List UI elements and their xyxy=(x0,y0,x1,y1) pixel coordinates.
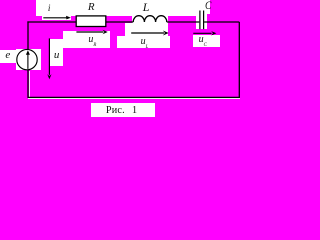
wire bottom xyxy=(28,96,240,98)
wire left vertical upper xyxy=(27,21,29,49)
white block e label xyxy=(0,50,17,64)
white block source circle xyxy=(16,49,41,71)
label u source xyxy=(54,50,60,61)
white block u_C xyxy=(193,35,220,48)
capacitor C left plate xyxy=(199,11,201,30)
white panel top band xyxy=(36,0,196,16)
white block u label xyxy=(49,39,63,66)
arrow u_C shaft xyxy=(193,32,211,34)
light fringe under bottom wire xyxy=(28,98,240,99)
light sliver right of left wire xyxy=(28,71,31,97)
white block u_L label xyxy=(117,36,170,48)
current arrow i shaft xyxy=(43,17,66,19)
arrow u source head (down) xyxy=(47,74,51,79)
arrow u_L shaft xyxy=(131,32,164,34)
resistor R body xyxy=(76,16,106,27)
white block inductor arcs xyxy=(132,16,168,23)
white pocket current arrow xyxy=(42,16,71,20)
wire top-left segment xyxy=(27,21,76,23)
caption Рис. 1 xyxy=(106,106,137,116)
source circle e xyxy=(17,49,37,69)
label R xyxy=(88,2,95,13)
wire left vertical lower xyxy=(27,70,29,98)
label C xyxy=(205,0,211,12)
arrow u_L head xyxy=(163,31,169,36)
label u_L xyxy=(141,37,149,47)
arrow u_C head xyxy=(211,31,216,35)
label u_C xyxy=(199,35,207,45)
source arrow shaft xyxy=(27,54,29,69)
label L xyxy=(143,1,150,13)
label i xyxy=(48,4,51,13)
arrow u_R shaft xyxy=(76,31,103,33)
label u_R xyxy=(88,35,96,45)
arrow u_R head xyxy=(103,30,108,34)
wire resistor to inductor xyxy=(106,21,133,23)
current arrow i head xyxy=(66,16,71,20)
label e xyxy=(5,50,10,61)
wire right side vertical xyxy=(238,22,240,97)
wire inductor to capacitor xyxy=(167,21,200,23)
arrow u source shaft xyxy=(48,38,50,74)
capacitor C right plate xyxy=(203,11,205,30)
white block u_L upper xyxy=(125,23,168,36)
white block capacitor plates xyxy=(196,11,207,30)
wire capacitor to right corner xyxy=(204,21,239,23)
source arrow head xyxy=(26,50,30,55)
inductor L coil xyxy=(133,16,167,22)
white block u_R xyxy=(63,31,110,48)
white caption box xyxy=(91,103,155,117)
